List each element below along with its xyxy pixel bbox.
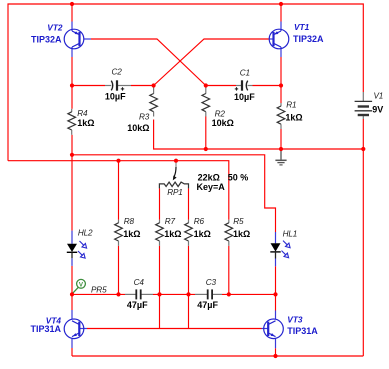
svg-text:1kΩ: 1kΩ [123,229,140,239]
svg-text:R4: R4 [77,109,88,118]
svg-text:C2: C2 [112,67,123,76]
svg-text:R1: R1 [286,101,296,110]
svg-text:HL2: HL2 [78,229,93,238]
svg-text:1kΩ: 1kΩ [77,118,94,128]
svg-text:R6: R6 [194,217,205,226]
svg-text:R5: R5 [233,217,244,226]
svg-text:1kΩ: 1kΩ [194,229,211,239]
svg-text:R3: R3 [139,113,150,122]
svg-text:PR5: PR5 [91,285,107,294]
svg-text:10kΩ: 10kΩ [127,123,149,133]
svg-text:V1: V1 [374,92,384,101]
svg-text:9V: 9V [372,104,383,114]
svg-text:TIP31A: TIP31A [30,324,61,334]
svg-text:TIP31A: TIP31A [287,326,318,336]
svg-text:HL1: HL1 [283,230,298,239]
svg-text:10µF: 10µF [234,92,255,102]
svg-text:Key=A: Key=A [197,182,226,192]
svg-text:C3: C3 [206,278,217,287]
svg-text:C1: C1 [240,68,250,77]
svg-text:50 %: 50 % [228,173,249,183]
svg-text:VT3: VT3 [287,314,303,324]
svg-text:C4: C4 [134,278,145,287]
svg-text:VT1: VT1 [294,22,310,32]
svg-text:RP1: RP1 [167,188,182,197]
svg-text:TIP32A: TIP32A [31,34,62,44]
svg-text:47µF: 47µF [197,300,218,310]
svg-text:R7: R7 [165,217,176,226]
svg-text:1kΩ: 1kΩ [233,229,250,239]
svg-text:TIP32A: TIP32A [293,34,324,44]
svg-text:1kΩ: 1kΩ [164,229,181,239]
svg-text:R8: R8 [124,217,135,226]
svg-text:10µF: 10µF [105,92,126,102]
svg-text:22kΩ: 22kΩ [198,173,220,183]
svg-text:47µF: 47µF [127,300,148,310]
svg-text:10kΩ: 10kΩ [212,118,234,128]
svg-text:1kΩ: 1kΩ [285,112,302,122]
svg-text:VT2: VT2 [47,22,63,32]
